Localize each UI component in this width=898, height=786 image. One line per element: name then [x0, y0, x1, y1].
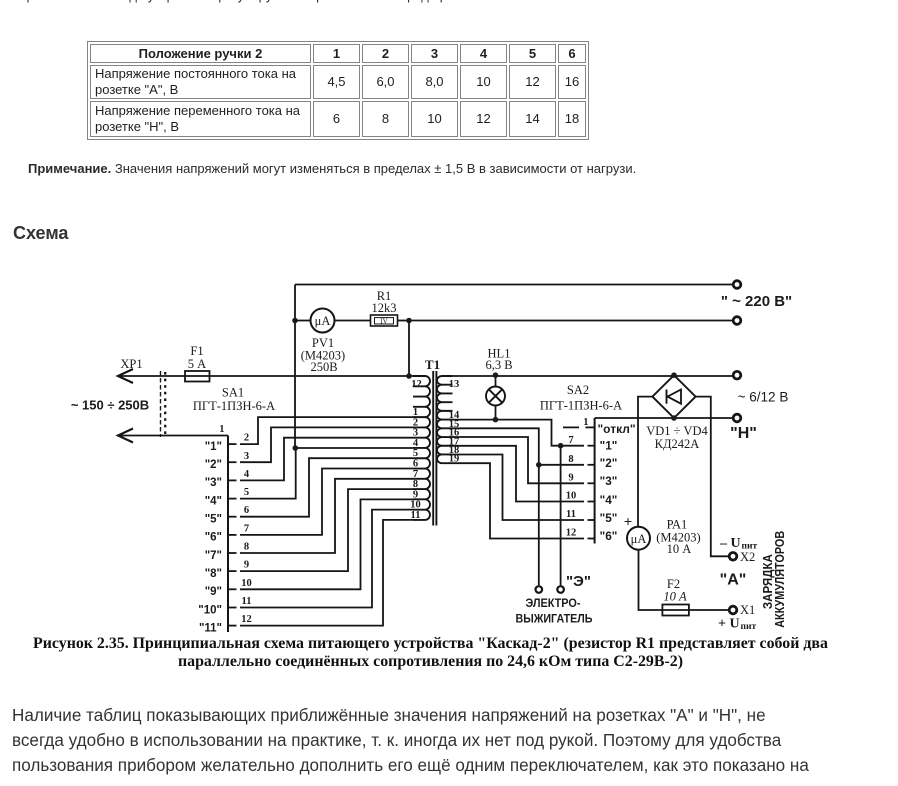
terminal X1 [729, 606, 737, 614]
wire: SA1 contact 9 to T1 tap 8 [240, 489, 413, 571]
svg-text:"Н": "Н" [730, 425, 757, 442]
svg-text:10 А: 10 А [667, 542, 692, 556]
wire: to burner terminal 1 [560, 446, 562, 586]
T1 secondary winding [437, 376, 453, 463]
wire: T1 pin 19 to SA2 contact 12 [453, 463, 585, 538]
wire: to burner terminal 2 [538, 465, 540, 586]
svg-text:11: 11 [411, 510, 421, 521]
svg-text:12: 12 [241, 614, 252, 625]
wire: F1 to transformer pin 12 [210, 375, 414, 377]
svg-text:μА: μА [631, 532, 647, 546]
svg-text:"6": "6" [600, 529, 618, 543]
SA1 tick position 3 [228, 479, 237, 481]
wire: PV1 to R1 [335, 320, 372, 322]
svg-text:"1": "1" [600, 439, 618, 453]
svg-text:F1: F1 [190, 344, 203, 358]
svg-text:9: 9 [568, 473, 573, 484]
node: electro tool branch 1 [558, 443, 564, 449]
svg-text:КД242А: КД242А [655, 437, 700, 451]
wire: pin13 / 6-12V rail [453, 375, 733, 377]
wire: vertical from top line down to PV1 branch and SA1 tap [294, 285, 296, 449]
svg-text:X2: X2 [740, 550, 755, 564]
svg-text:10: 10 [241, 578, 252, 589]
svg-text:РА1: РА1 [667, 518, 688, 532]
SA2 tick contact 11 [588, 519, 595, 521]
SA1 tick position 8 [228, 570, 237, 572]
svg-text:10 А: 10 А [663, 590, 687, 604]
wire: T1 pin 18 to SA2 contact 11 [453, 455, 585, 521]
meter PA1 [627, 527, 650, 550]
svg-text:+: + [624, 515, 633, 531]
svg-text:"8": "8" [205, 568, 222, 580]
svg-text:3: 3 [244, 451, 249, 462]
svg-text:T1: T1 [425, 357, 440, 372]
connector XP1 dashed lines [160, 371, 162, 437]
node: bridge top [671, 372, 677, 378]
svg-text:"10": "10" [198, 604, 222, 616]
svg-text:~ 150 ÷ 250В: ~ 150 ÷ 250В [71, 398, 149, 413]
svg-text:250В: 250В [310, 360, 337, 374]
SA2 tick contact 10 [588, 501, 595, 503]
wire: SA1 contact 2 to T1 tap 1 [240, 417, 413, 444]
SA1 tick position 4 [228, 498, 237, 500]
T1 primary winding [413, 376, 430, 520]
switch SA2 common bar [594, 418, 596, 544]
SA2 tick contact 8 [588, 464, 595, 466]
terminal: 220V line 2 [733, 317, 741, 325]
terminal: 220V line 1 [733, 281, 741, 289]
fuse F2 [662, 605, 689, 616]
SA2 off contact dashes [563, 426, 579, 428]
svg-text:ПГТ-1ПЗН-6-А: ПГТ-1ПЗН-6-А [193, 399, 275, 413]
table of voltages [87, 41, 589, 140]
svg-text:12: 12 [566, 528, 577, 539]
svg-text:"5": "5" [205, 514, 222, 526]
resistor R1 [371, 315, 398, 326]
svg-text:5: 5 [244, 487, 249, 498]
svg-text:"откл": "откл" [597, 422, 635, 436]
wire: T1 pin 16 to SA2 contact 9 [453, 437, 585, 483]
wire: F2 to X1 [689, 609, 729, 611]
wire: 220V line 2 from R1 junction [409, 320, 733, 322]
node: pin12 junction with R1 drop [406, 373, 412, 379]
svg-text:"2": "2" [205, 459, 222, 471]
T1 core [432, 371, 434, 526]
svg-text:ЭЛЕКТРО-: ЭЛЕКТРО- [526, 596, 581, 610]
svg-text:"3": "3" [205, 477, 222, 489]
node: lamp bottom on pin14 wire [493, 417, 499, 423]
svg-text:"9": "9" [205, 586, 222, 598]
svg-text:7: 7 [244, 523, 249, 534]
wire: drop from R1 junction to F1 line [408, 321, 410, 377]
svg-text:2: 2 [244, 433, 249, 444]
wire: PV1 branch left stub [295, 320, 311, 322]
svg-text:8: 8 [244, 542, 249, 553]
svg-text:+ U: + U [718, 617, 740, 632]
wire: R1 right to junction [397, 320, 409, 322]
SA2 tick contact 12 [588, 538, 595, 540]
section heading [13, 223, 68, 244]
svg-text:13: 13 [449, 379, 460, 390]
op meter PV1 circle [311, 309, 335, 333]
terminal: burner right [557, 586, 564, 593]
svg-text:ПГТ-1ПЗН-6-А: ПГТ-1ПЗН-6-А [540, 399, 622, 413]
svg-text:"5": "5" [600, 511, 618, 525]
SA1 tick position 6 [228, 534, 237, 536]
svg-text:μА: μА [315, 314, 331, 328]
SA1 tick position 9 [228, 588, 237, 590]
wire: top 220V line 1 [295, 284, 733, 286]
SA1 tick position 11 [228, 625, 237, 627]
svg-text:"3": "3" [600, 474, 618, 488]
svg-text:"1": "1" [205, 441, 222, 453]
svg-text:11: 11 [566, 509, 576, 520]
svg-text:~ 6/12 В: ~ 6/12 В [738, 390, 789, 405]
svg-text:"А": "А" [720, 572, 747, 589]
node: electro tool branch 2 [536, 462, 542, 468]
svg-text:"4": "4" [205, 495, 222, 507]
wire: SA2 common to H line [595, 417, 733, 419]
svg-text:12: 12 [411, 379, 422, 390]
SA1 tick position 10 [228, 607, 237, 609]
svg-text:"11": "11" [199, 622, 222, 634]
node: lamp top [493, 372, 499, 378]
wire: SA1 contact 6 to T1 tap 5 [240, 458, 413, 517]
svg-text:SA2: SA2 [567, 383, 589, 397]
svg-text:"Э": "Э" [566, 573, 591, 590]
svg-text:6,3 В: 6,3 В [485, 358, 512, 372]
figure caption [0, 635, 861, 671]
SA1 tick position 1 [228, 443, 237, 445]
svg-text:12k3: 12k3 [372, 301, 397, 315]
wire: SA1 contact 10 to T1 tap 9 [240, 499, 413, 589]
wire: PA1 to F2 [639, 550, 663, 610]
svg-text:8: 8 [568, 454, 573, 465]
wire: bridge left rail [638, 397, 652, 527]
switch SA1 common bar [227, 436, 229, 633]
svg-text:X1: X1 [740, 603, 755, 617]
arrow: upper mains input [118, 375, 185, 377]
wire: T1 pin 17 to SA2 contact 10 [453, 446, 585, 502]
terminal X2 [729, 553, 737, 561]
svg-text:– U: – U [719, 536, 741, 551]
node: R1 output junction [406, 318, 412, 324]
svg-text:"2": "2" [600, 456, 618, 470]
wire: SA1 contact 8 to T1 tap 7 [240, 479, 413, 553]
lamp HL1 [486, 387, 505, 406]
SA2 tick contact 9 [588, 482, 595, 484]
node: PV1 vertical joins tap4 wire [293, 445, 299, 451]
wire: T1 pin 14 to SA2 contact 7 [453, 420, 585, 446]
node: bridge bottom [671, 415, 677, 421]
node: junction top-left of PV1 branch [292, 318, 298, 324]
svg-text:4: 4 [244, 469, 250, 480]
body paragraph [12, 703, 898, 778]
wire: SA1 contact 11 to T1 tap 10 [240, 510, 413, 608]
SA1 tick position 7 [228, 552, 237, 554]
svg-text:пит: пит [741, 622, 757, 632]
svg-text:АККУМУЛЯТОРОВ: АККУМУЛЯТОРОВ [772, 531, 787, 628]
wire: SA1 contact 12 to T1 tap 11 [240, 520, 413, 626]
svg-text:9: 9 [244, 560, 249, 571]
svg-text:1: 1 [583, 417, 588, 428]
SA2 tick contact 7 [588, 445, 595, 447]
fuse F1 [185, 371, 210, 382]
svg-text:5 А: 5 А [188, 357, 206, 371]
svg-text:1: 1 [219, 424, 224, 435]
wire: bridge right rail to X2 [696, 397, 729, 557]
svg-text:10: 10 [566, 491, 577, 502]
SA1 tick position 2 [228, 461, 237, 463]
diode bridge VD1-VD4 [652, 375, 695, 418]
svg-text:SA1: SA1 [222, 386, 244, 400]
svg-text:11: 11 [242, 596, 252, 607]
wire: SA1 contact 3 to T1 tap 2 [240, 427, 413, 462]
svg-text:ВЫЖИГАТЕЛЬ: ВЫЖИГАТЕЛЬ [516, 612, 593, 626]
wire: SA1 contact 7 to T1 tap 6 [240, 469, 413, 535]
SA1 tick position 5 [228, 516, 237, 518]
svg-text:XP1: XP1 [120, 357, 142, 371]
cut-off text line at very top [5, 0, 484, 3]
svg-text:"7": "7" [205, 550, 222, 562]
svg-text:VD1 ÷ VD4: VD1 ÷ VD4 [646, 424, 708, 438]
svg-text:" ~ 220 В": " ~ 220 В" [721, 293, 792, 310]
note line [28, 161, 636, 176]
terminal H [733, 414, 741, 422]
terminal: burner left [536, 586, 543, 593]
wire: T1 pin 15 to SA2 contact 8 [453, 428, 585, 465]
arrow: lower mains input [118, 435, 228, 437]
svg-text:6: 6 [244, 505, 249, 516]
svg-text:IV: IV [380, 318, 387, 326]
wire: SA1 contact 5 to T1 tap 4 [240, 448, 413, 499]
svg-text:"6": "6" [205, 532, 222, 544]
svg-text:"4": "4" [600, 493, 618, 507]
wire: SA1 contact 4 to T1 tap 3 [240, 438, 413, 481]
terminal: ~6/12V [733, 371, 741, 379]
svg-text:7: 7 [568, 435, 573, 446]
diode symbol inside bridge [668, 390, 682, 404]
